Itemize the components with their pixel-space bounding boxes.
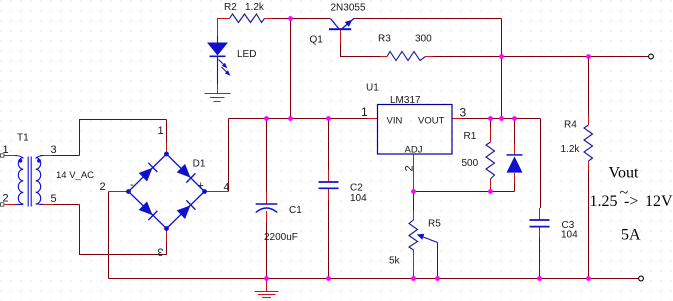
svg-text:1.25: 1.25 xyxy=(590,193,618,210)
svg-text:1: 1 xyxy=(158,125,164,137)
svg-text:500: 500 xyxy=(462,158,479,169)
svg-text:Vout: Vout xyxy=(609,165,639,182)
svg-text:C1: C1 xyxy=(289,205,302,216)
svg-text:VOUT: VOUT xyxy=(418,116,445,127)
svg-text:1: 1 xyxy=(361,105,368,119)
svg-text:14 V_AC: 14 V_AC xyxy=(56,170,94,181)
svg-text:R3: R3 xyxy=(378,34,391,45)
svg-text:2N3055: 2N3055 xyxy=(331,3,366,14)
svg-text:104: 104 xyxy=(350,193,367,204)
svg-text:R2: R2 xyxy=(224,2,237,13)
svg-text:ADJ: ADJ xyxy=(405,145,423,156)
svg-text:3: 3 xyxy=(157,246,163,258)
svg-text:2: 2 xyxy=(404,165,416,171)
svg-text:Q1: Q1 xyxy=(310,35,324,46)
svg-text:+: + xyxy=(198,180,204,192)
svg-text:3: 3 xyxy=(51,144,57,156)
svg-text:LED: LED xyxy=(237,49,256,60)
svg-text:T1: T1 xyxy=(17,133,29,144)
svg-text:3: 3 xyxy=(460,106,467,120)
svg-text:5: 5 xyxy=(51,193,57,205)
svg-text:2: 2 xyxy=(100,181,106,193)
svg-text:LM317: LM317 xyxy=(390,95,421,106)
svg-text:->: -> xyxy=(624,193,638,210)
svg-text:300: 300 xyxy=(415,34,432,45)
svg-text:D1: D1 xyxy=(193,159,206,170)
svg-text:104: 104 xyxy=(561,230,578,241)
svg-text:R1: R1 xyxy=(464,131,477,142)
svg-text:VIN: VIN xyxy=(387,116,403,127)
svg-text:R5: R5 xyxy=(428,219,441,230)
svg-text:-: - xyxy=(130,179,134,191)
svg-text:1.2k: 1.2k xyxy=(561,144,581,155)
svg-text:1.2k: 1.2k xyxy=(245,2,265,13)
svg-text:4: 4 xyxy=(224,182,230,194)
svg-text:1: 1 xyxy=(3,144,9,156)
svg-text:U1: U1 xyxy=(366,83,379,94)
svg-text:5A: 5A xyxy=(621,227,641,244)
svg-text:R4: R4 xyxy=(564,120,577,131)
svg-text:2: 2 xyxy=(3,193,9,205)
svg-text:C2: C2 xyxy=(350,183,363,194)
svg-text:12V: 12V xyxy=(645,193,673,210)
svg-text:2200uF: 2200uF xyxy=(264,232,298,243)
svg-text:5k: 5k xyxy=(389,256,401,267)
